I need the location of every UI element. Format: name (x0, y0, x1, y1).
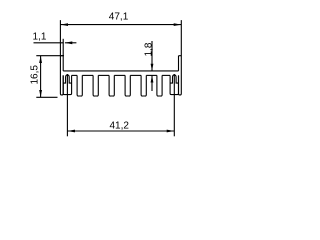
right wall rib top cap (179, 55, 182, 57)
1.8 down arrow (151, 64, 154, 71)
41.2 dim line (67, 130, 174, 132)
fin 1 (77, 75, 82, 96)
1.8 lower leader (151, 75, 153, 91)
1.1 right arrow (points left) (65, 41, 72, 44)
right screw boss body (170, 75, 178, 94)
fin 4 (125, 75, 130, 96)
left wall inner face (rib to plate top corner) (62, 39, 64, 71)
fin 2 (93, 75, 98, 96)
16.5 top arrow (points up) (39, 56, 42, 63)
svg-text:16,5: 16,5 (30, 65, 41, 85)
right wall inner face (178, 56, 180, 71)
47.1 left arrow (60, 23, 68, 26)
svg-text:1,1: 1,1 (33, 32, 47, 43)
41.2 right arrow (167, 130, 175, 133)
svg-text:1,8: 1,8 (144, 42, 155, 56)
plate underside segments (72, 74, 78, 76)
heatsink profile: left wall outer face + 47.1 extension (60, 20, 63, 95)
dimension 47.1 line (60, 24, 181, 26)
41.2 left extension (66, 74, 68, 136)
16.5 bottom arrow (points down) (39, 90, 42, 97)
plate top surface (63, 70, 178, 72)
svg-text:47,1: 47,1 (109, 11, 129, 22)
right boss screw channel and nub (170, 75, 178, 83)
left boss screw channel and nub (63, 75, 71, 83)
right wall outer face + 47.1 extension (179, 20, 182, 95)
fin 6 (157, 75, 162, 96)
16.5 top extension (36, 55, 64, 57)
41.2 left arrow (67, 130, 75, 133)
47.1 right arrow (174, 23, 182, 26)
left wall rib top cap (60, 55, 63, 57)
16.5 bottom extension (36, 96, 57, 98)
41.2 right extension (173, 74, 175, 136)
16.5 dim line (40, 56, 42, 98)
1.8 up arrow (151, 75, 154, 82)
dimension 1.1 right line (65, 42, 77, 44)
left screw boss body (63, 75, 71, 94)
1.8 upper leader (151, 41, 153, 71)
fin 5 (141, 75, 146, 96)
svg-text:41,2: 41,2 (110, 120, 130, 131)
fin 3 (109, 75, 114, 96)
dimension 1.1 left line (34, 42, 64, 44)
